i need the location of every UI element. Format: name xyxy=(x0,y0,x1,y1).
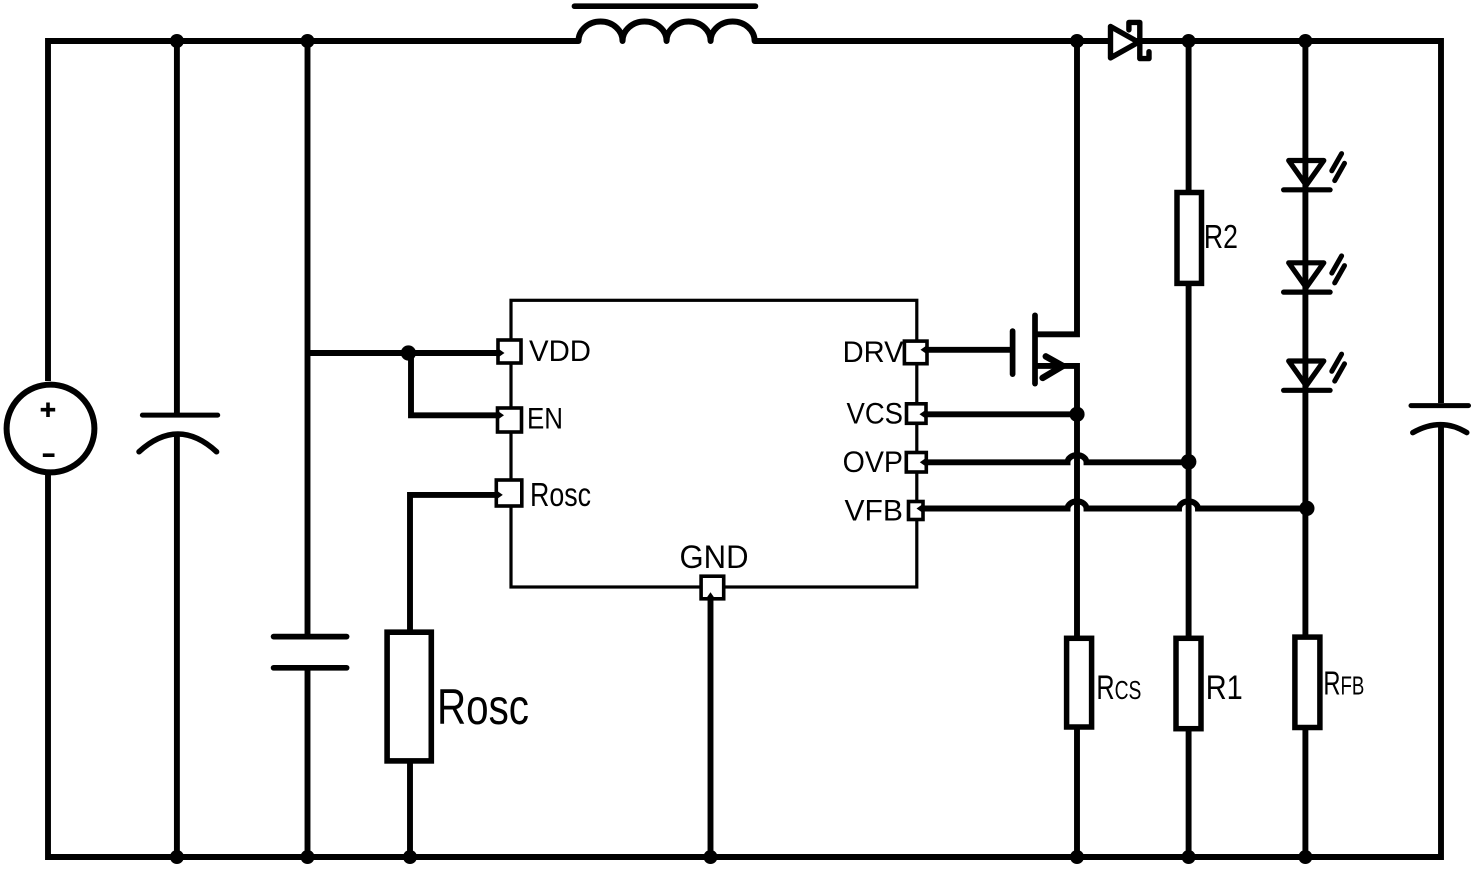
svg-text:VFB: VFB xyxy=(845,495,904,528)
resistor R1 xyxy=(1176,638,1201,728)
pin VFB xyxy=(909,502,924,520)
svg-text:EN: EN xyxy=(527,403,563,436)
resistor Rcs xyxy=(1067,638,1092,727)
resistor RFB xyxy=(1295,637,1320,727)
wire VDD branch bottom xyxy=(305,668,311,857)
wire right rail lower + bottom rail + left rail lower xyxy=(48,427,1441,857)
node top rail / input cap xyxy=(170,34,184,48)
IC U1 body xyxy=(511,300,917,587)
capacitor (input, polarized) xyxy=(139,415,218,452)
wire DRV to gate xyxy=(920,347,1013,353)
svg-text:DRV: DRV xyxy=(843,336,904,369)
wire rail to R2 xyxy=(1186,41,1192,193)
wire OVP with hop xyxy=(920,455,1189,462)
diode (Schottky) xyxy=(1111,22,1150,58)
pin EN xyxy=(498,408,522,432)
svg-text:Rosc: Rosc xyxy=(437,679,529,735)
wire LED string to RFB xyxy=(1302,41,1308,637)
node VFB / RFB xyxy=(1299,501,1314,516)
svg-text:VCS: VCS xyxy=(847,398,904,431)
node top rail / MOSFET drain xyxy=(1070,34,1084,48)
inductor xyxy=(575,6,756,41)
pin Rosc xyxy=(496,480,522,506)
wire Rcs to ground rail xyxy=(1074,727,1080,857)
svg-text:RFB: RFB xyxy=(1323,665,1364,702)
node ground rail / Rcs xyxy=(1070,850,1084,864)
wire EN xyxy=(411,353,502,415)
pin GND xyxy=(701,576,724,599)
node OVP / R2-R1 xyxy=(1181,454,1197,470)
wire R1 to ground rail xyxy=(1186,729,1192,857)
capacitor (output, polarized) xyxy=(1411,406,1469,433)
wire GND pin down xyxy=(708,594,714,857)
svg-text:R1: R1 xyxy=(1206,669,1243,707)
svg-text:R2: R2 xyxy=(1204,218,1238,255)
wire R2 to R1 through OVP node xyxy=(1186,283,1192,638)
capacitor (VDD bypass) xyxy=(274,637,347,668)
wire input cap top xyxy=(174,41,180,415)
wire Rosc resistor to ground rail xyxy=(407,761,413,857)
wire top rail right + right rail upper xyxy=(755,41,1441,403)
pin VCS xyxy=(907,404,927,424)
svg-text:GND: GND xyxy=(680,539,749,575)
svg-text:OVP: OVP xyxy=(843,446,903,479)
wire VDD xyxy=(308,350,503,356)
wire VDD branch top xyxy=(305,41,311,637)
wire Rosc pin to resistor xyxy=(410,495,502,632)
pin VDD xyxy=(498,340,521,363)
pin DRV xyxy=(904,341,927,364)
LED 2 xyxy=(1284,256,1345,292)
node ground rail / GND pin xyxy=(704,850,718,864)
node ground rail / VDD branch xyxy=(301,850,315,864)
wire MOSFET source down through VCS node xyxy=(1036,366,1077,638)
node top rail / LED string xyxy=(1298,34,1312,48)
LED 1 xyxy=(1284,154,1345,190)
node ground rail / RFB xyxy=(1298,850,1312,864)
node ground rail / input cap xyxy=(170,850,184,864)
wire top rail left + left rail upper xyxy=(48,41,579,381)
wire VFB with two hops xyxy=(920,501,1305,508)
voltage source xyxy=(7,385,95,473)
svg-text:VDD: VDD xyxy=(529,335,591,368)
svg-text:Rosc: Rosc xyxy=(530,476,591,513)
wire RFB to ground rail xyxy=(1302,728,1308,858)
transistor (NMOS) xyxy=(1013,315,1063,383)
node top rail / R2 xyxy=(1182,34,1196,48)
pin OVP xyxy=(906,453,926,473)
node VCS / source xyxy=(1069,407,1084,422)
wire MOSFET drain up to rail xyxy=(1036,41,1077,334)
node VDD/EN xyxy=(401,345,416,360)
wire input cap bottom xyxy=(174,433,180,857)
resistor Rosc xyxy=(387,632,431,761)
svg-text:RCS: RCS xyxy=(1096,669,1141,707)
resistor R2 xyxy=(1177,193,1202,284)
node ground rail / Rosc xyxy=(403,850,417,864)
node ground rail / R1 xyxy=(1182,850,1196,864)
node top rail / VDD branch xyxy=(301,34,315,48)
LED 3 xyxy=(1284,354,1345,390)
wire VCS xyxy=(920,411,1077,417)
